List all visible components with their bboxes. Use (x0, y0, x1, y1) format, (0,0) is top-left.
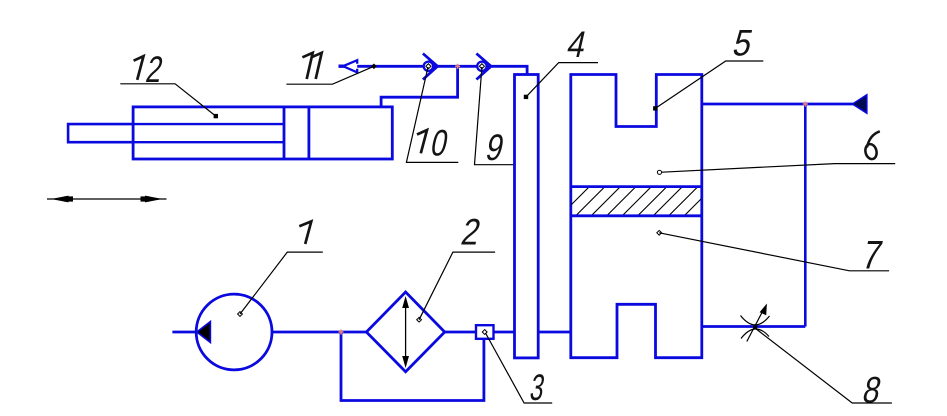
plate 4 (515, 75, 539, 358)
bypass loop (341, 332, 484, 401)
label 7 (657, 230, 889, 277)
bottom main line pump to filter (172, 331, 196, 334)
label 6 (657, 131, 895, 174)
inlet triangle (853, 95, 867, 113)
junction node (pink) (455, 64, 460, 69)
label 3 (486, 333, 553, 408)
check valve 9 (476, 54, 491, 80)
filter 2 (366, 292, 444, 372)
cylinder 12 rod (68, 124, 284, 142)
riser wire (804, 104, 807, 327)
piston hatch band (560, 186, 730, 216)
motion arrow (47, 196, 167, 203)
label 12 (120, 50, 218, 119)
label 1 (238, 221, 323, 316)
wire filter to valve 3 (445, 331, 476, 334)
label 8 (755, 328, 892, 411)
main pneumatic line (344, 66, 527, 74)
wire cylinder to junction (381, 66, 458, 107)
label 9 (475, 67, 514, 169)
label 2 (417, 213, 495, 322)
bottom right pipe (702, 325, 806, 328)
label 4 (524, 24, 598, 99)
check valve 10 (423, 54, 438, 80)
cylinder 12 rod lines inside (133, 124, 284, 142)
wire valve 3 to plate 4 (494, 331, 515, 334)
label 10 (406, 67, 458, 164)
top right pipe (702, 103, 853, 106)
pump 1 (196, 294, 272, 370)
label 5 (653, 23, 763, 111)
wire plate 4 to block (538, 331, 571, 334)
valve 3 (476, 325, 494, 339)
throttle 8 (741, 309, 770, 342)
junction node (pink) (803, 102, 808, 107)
junction node (pink) (339, 330, 344, 335)
label 11 (286, 53, 376, 84)
block 5 body (571, 75, 702, 358)
piston band borders (571, 187, 701, 216)
wire pump outlet (272, 331, 367, 334)
cylinder 12 body (133, 107, 392, 159)
cylinder 12 piston (284, 107, 309, 159)
exhaust arrow 11 (339, 60, 358, 72)
